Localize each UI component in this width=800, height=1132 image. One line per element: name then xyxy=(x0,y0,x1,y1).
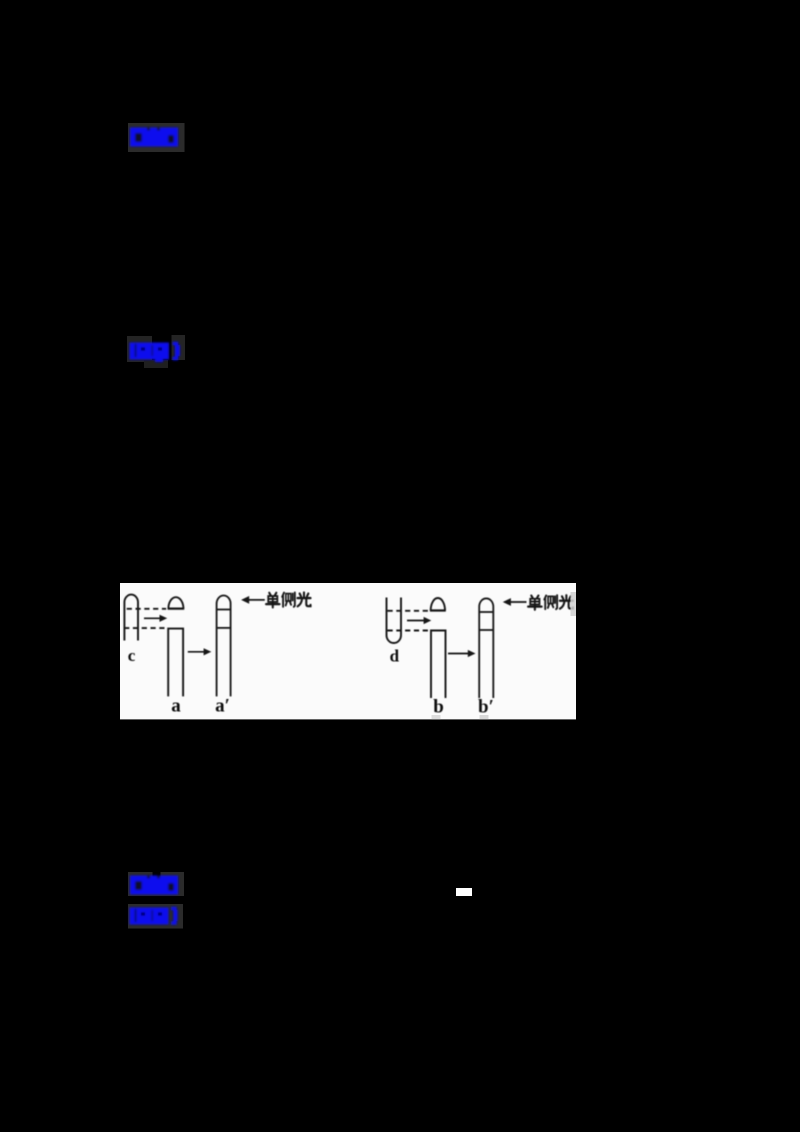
arrow a to a' xyxy=(188,651,206,653)
arrow d to b xyxy=(407,620,426,622)
panel background xyxy=(120,583,576,719)
dome of a xyxy=(168,597,183,608)
blue label 【答案】 #2 xyxy=(130,343,181,363)
gray artifact strip over 光 xyxy=(571,592,577,616)
blue label 【解析】 #1 xyxy=(130,128,178,147)
svg-text:b′: b′ xyxy=(478,697,494,718)
dashed cut line upper left xyxy=(127,608,167,610)
gray artifact under label b xyxy=(432,715,441,719)
svg-text:a′: a′ xyxy=(215,696,230,717)
gray artifact under label b' xyxy=(480,715,489,719)
tube b' with grafted tip xyxy=(479,598,493,698)
svg-text:d: d xyxy=(390,647,400,666)
blue label 【解析】 #3 xyxy=(130,876,178,895)
light arrow left group xyxy=(247,599,265,601)
dome of b xyxy=(431,598,445,611)
label box 3 xyxy=(128,872,184,896)
text 单侧光 right xyxy=(528,595,573,610)
tube a' with grafted tip xyxy=(217,595,231,696)
tube b xyxy=(431,631,446,699)
text 单侧光 left xyxy=(266,592,310,607)
label gray patches 2 xyxy=(127,335,185,368)
dashed line lower right xyxy=(388,630,429,632)
blue label 【答案】 #4 xyxy=(130,908,178,925)
tube d (U open top) xyxy=(387,598,402,644)
light arrow right group xyxy=(509,601,527,603)
svg-text:c: c xyxy=(128,646,136,665)
dashed line upper right xyxy=(388,610,430,612)
label box 1 xyxy=(128,123,185,152)
dashed cut line lower left xyxy=(124,627,166,629)
svg-text:a: a xyxy=(171,696,181,717)
tube a xyxy=(168,629,183,697)
tip c (inverted U) xyxy=(124,595,138,641)
label box 4 xyxy=(128,904,183,929)
arrow c to a xyxy=(144,617,162,619)
svg-text:b: b xyxy=(433,697,444,718)
arrow b to b' xyxy=(448,653,470,655)
